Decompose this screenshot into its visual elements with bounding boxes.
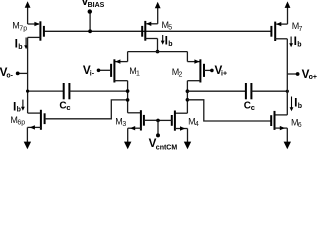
current label Ib top-right [289, 34, 301, 49]
label Vo+ [302, 68, 317, 81]
label M6p [10, 115, 25, 127]
wire left output column (Vo- node) [27, 37, 29, 113]
wire M2 drain column [186, 81, 188, 114]
svg-text:4: 4 [195, 121, 199, 128]
transistor M3 [128, 110, 158, 130]
svg-text:7p: 7p [19, 26, 27, 33]
label Vi+ [215, 64, 228, 78]
transistor M7p [28, 21, 44, 40]
transistor M5 [142, 21, 158, 41]
terminal Vi+ [210, 69, 214, 73]
transistor M1 [99, 52, 128, 83]
ground arrow under M6p [24, 127, 31, 149]
label M6 [291, 117, 302, 129]
wire M6 gate path [187, 100, 271, 121]
svg-text:6p: 6p [17, 120, 25, 127]
node left gate junction [126, 98, 130, 102]
ground arrow under M3 [124, 128, 131, 149]
svg-text:b: b [297, 41, 301, 48]
svg-text:o-: o- [6, 73, 13, 80]
current label Ib top-left [15, 36, 28, 51]
svg-text:7: 7 [299, 26, 303, 33]
wire M6p gate path [45, 100, 128, 119]
node tail junction [156, 50, 160, 54]
svg-text:b: b [168, 41, 172, 48]
wire M1 drain column [127, 81, 129, 113]
transistor M7 [271, 22, 287, 41]
svg-text:1: 1 [136, 71, 140, 78]
svg-text:i+: i+ [221, 71, 227, 78]
supply arrow middle (VDD) [155, 2, 161, 24]
label M4 [188, 117, 199, 129]
wire right output column (Vo+ node) [286, 39, 288, 115]
capacitor Cc right [187, 83, 287, 99]
svg-text:b: b [17, 107, 21, 114]
label M7p [12, 21, 27, 33]
node Cc-left / Vo- junction [26, 90, 29, 93]
label VcntCM [149, 137, 178, 152]
current label Ib middle [161, 34, 173, 49]
svg-text:3: 3 [122, 121, 126, 128]
wire tail line [128, 51, 188, 53]
wire VBIAS rail [44, 30, 272, 32]
terminal Vi- [97, 69, 101, 73]
wire VBIAS riser [89, 12, 91, 31]
terminal Vo+ [287, 72, 299, 76]
wire VcntCM riser [157, 120, 159, 134]
svg-text:5: 5 [168, 25, 172, 32]
transistor M6 [271, 111, 287, 130]
terminal VcntCM [156, 133, 160, 137]
current label Ib bottom-left [13, 99, 25, 113]
label M1 [129, 66, 140, 78]
svg-text:b: b [298, 103, 302, 110]
svg-text:c: c [66, 103, 70, 112]
transistor M6p [27, 110, 44, 130]
supply arrow left (VDD) [25, 1, 31, 24]
ground arrow under M4 [184, 129, 191, 150]
wire M5 drain to tail [157, 39, 159, 52]
label Cc right [244, 101, 255, 113]
svg-text:b: b [18, 44, 22, 51]
svg-text:i-: i- [90, 71, 95, 78]
capacitor Cc left [28, 83, 128, 99]
label M5 [162, 20, 173, 32]
transistor M4 [158, 111, 188, 131]
label Vi- [83, 64, 95, 78]
current label Ib bottom-right [290, 95, 302, 111]
node VBIAS terminal [88, 9, 92, 13]
svg-text:cntCM: cntCM [156, 144, 178, 151]
label VBIAS [81, 0, 105, 9]
label M3 [115, 116, 126, 128]
transistor M2 [187, 52, 212, 83]
node Cc-right / Vo+ junction [286, 90, 289, 93]
label Vo- [0, 66, 14, 80]
svg-text:BIAS: BIAS [88, 2, 105, 9]
terminal Vo- [16, 72, 28, 76]
label M2 [172, 67, 183, 79]
node right Cc junction [186, 89, 190, 93]
svg-text:o+: o+ [309, 74, 317, 81]
node right gate junction [186, 98, 190, 102]
svg-text:2: 2 [179, 72, 183, 79]
svg-text:c: c [251, 103, 255, 112]
node left Cc junction [126, 89, 130, 93]
svg-text:6: 6 [298, 122, 302, 129]
label Cc left [59, 101, 70, 113]
ground arrow under M6 [284, 128, 291, 149]
label M7 [292, 21, 303, 33]
node VcntCM gate junction [156, 119, 160, 123]
supply arrow right (VDD) [285, 1, 291, 24]
node VBIAS rail junction [88, 29, 92, 33]
